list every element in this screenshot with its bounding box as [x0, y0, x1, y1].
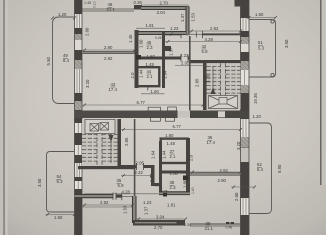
dim line 2.92 room43: [82, 49, 135, 51]
balcony51 top-right: [249, 20, 276, 78]
stair2 landing with cross: [85, 120, 115, 134]
right wall window (room39): [241, 198, 250, 215]
left wall at central junction: [75, 110, 83, 123]
svg-text:5.3: 5.3: [57, 179, 64, 184]
svg-text:1.60: 1.60: [183, 179, 188, 188]
svg-text:6.77: 6.77: [173, 124, 182, 129]
svg-text:3.04: 3.04: [157, 10, 166, 15]
stair2 bottom wall: [78, 166, 136, 169]
left wall window (balcony54 door): [75, 163, 83, 177]
svg-text:6.77: 6.77: [137, 100, 146, 105]
dim line 1.60 under room44: [141, 93, 165, 95]
svg-text:1.64: 1.64: [163, 70, 168, 79]
dimension ticks: [46, 16, 277, 221]
svg-text:1.40: 1.40: [191, 187, 195, 194]
top facade stub 0.36: [134, 5, 142, 10]
dim line 1.50 balcony51: [249, 17, 276, 19]
corridor stub wall: [165, 46, 171, 51]
dim line 4.28 kitchen35: [84, 193, 160, 195]
photo edge band left: [0, 0, 3, 235]
svg-text:1.45: 1.45: [128, 34, 133, 43]
dim line 6.77 hall1: [82, 104, 203, 106]
dim line 1.80 above room37: [163, 137, 189, 139]
svg-text:5.3: 5.3: [258, 46, 265, 51]
svg-text:1.50: 1.50: [255, 12, 264, 17]
dim line 6.77 hall2: [121, 129, 241, 131]
wall room45 top: [135, 32, 187, 35]
top facade window line room48: [82, 9, 134, 11]
room45 bottom wall + corridor wall: [135, 57, 182, 60]
tiny labels: [155, 36, 195, 194]
dim line 2.60 bottom right: [231, 186, 255, 188]
dim line 3.04 bottom: [136, 218, 185, 220]
facade step wall: [186, 7, 189, 36]
facade wall over kitchen42: [165, 31, 241, 39]
dim line 2.92 room36: [190, 171, 241, 173]
svg-text:1.81: 1.81: [167, 203, 176, 208]
svg-text:2.0: 2.0: [130, 72, 135, 79]
stair2 treads: [82, 132, 118, 167]
svg-text:1.23: 1.23: [143, 200, 152, 205]
svg-text:8.4: 8.4: [63, 58, 70, 63]
stair1 left wall: [203, 60, 207, 110]
svg-text:4.28: 4.28: [205, 37, 214, 42]
left wall pier: [75, 50, 83, 60]
svg-text:1.37: 1.37: [180, 13, 185, 22]
svg-text:3.50: 3.50: [284, 39, 289, 48]
svg-text:0.10: 0.10: [93, 1, 97, 8]
wall between room43 and room48: [82, 52, 139, 54]
svg-text:1.53: 1.53: [191, 13, 196, 22]
left exterior wall column: [75, 0, 83, 235]
bottom facade wall kitchen35: [75, 193, 123, 200]
svg-text:1.23: 1.23: [170, 26, 179, 31]
facade step wall bottom: [133, 196, 137, 223]
stair2 arrow: [109, 135, 114, 142]
svg-text:6.4: 6.4: [257, 167, 264, 172]
svg-text:2.85: 2.85: [195, 78, 200, 87]
svg-text:1.48: 1.48: [167, 141, 176, 146]
stair1 treads: [207, 63, 241, 96]
svg-text:1.50: 1.50: [147, 54, 156, 59]
svg-text:19.36: 19.36: [253, 93, 258, 104]
left wall window (room48 balcony door): [75, 14, 83, 28]
svg-text:1.50: 1.50: [170, 171, 179, 176]
svg-text:2.3: 2.3: [147, 45, 154, 50]
left wall stair window 2: [75, 145, 83, 155]
svg-text:2.22: 2.22: [180, 53, 189, 58]
svg-text:2.22: 2.22: [135, 170, 144, 175]
corridor vertical wall bottom: [151, 165, 155, 186]
svg-text:2.92: 2.92: [104, 56, 113, 61]
left wall pier: [75, 133, 83, 145]
right wall stair window: [241, 70, 250, 85]
balcony54 bottom-left: [47, 152, 75, 213]
door gap right: [218, 111, 225, 117]
svg-text:1.37: 1.37: [144, 206, 149, 215]
svg-text:2.85: 2.85: [124, 137, 129, 146]
svg-text:1.81: 1.81: [146, 23, 155, 28]
svg-text:3.04: 3.04: [156, 215, 165, 220]
stair2 floor wash: [82, 119, 118, 166]
dim line 1.50 balcony54: [46, 214, 75, 216]
left wall pier: [75, 177, 83, 181]
left wall pier: [75, 93, 83, 101]
right exterior wall column: [235, 0, 250, 235]
left wall pier: [75, 155, 83, 163]
stair1 arrow: [211, 87, 216, 94]
svg-text:21.1: 21.1: [205, 226, 214, 231]
svg-text:17.4: 17.4: [109, 87, 118, 92]
svg-text:0.34: 0.34: [184, 223, 191, 227]
bottom facade wall room39 left part: [133, 220, 185, 226]
svg-text:3.20: 3.20: [85, 79, 90, 88]
left wall pier: [75, 28, 83, 34]
svg-text:1.45: 1.45: [84, 1, 91, 5]
svg-text:2.1: 2.1: [147, 74, 154, 79]
svg-text:0.48: 0.48: [226, 226, 233, 230]
stair2 right wall: [118, 119, 122, 169]
svg-text:1.44: 1.44: [139, 69, 144, 78]
left wall outline: [74, 0, 76, 235]
left wall window (kitchen35): [75, 181, 83, 189]
wall room36/39 divider: [190, 173, 241, 175]
right wall at central junction: [241, 106, 250, 119]
vent square room38: [183, 176, 188, 181]
svg-text:1.48: 1.48: [146, 62, 155, 67]
svg-text:2.90: 2.90: [104, 45, 113, 50]
stair1 top wall: [191, 60, 241, 63]
svg-text:3.50: 3.50: [37, 178, 42, 187]
stair1 floor wash: [207, 63, 241, 109]
svg-text:1.60: 1.60: [151, 89, 160, 94]
dim line 2.22 corridor2: [121, 175, 151, 177]
dim line 2.92 kitchen42: [189, 30, 241, 32]
bottom facade stub 0.34: [177, 220, 185, 226]
wall vertical room43 right: [135, 30, 139, 88]
svg-text:17.4: 17.4: [207, 140, 216, 145]
svg-text:2.70: 2.70: [160, 1, 169, 6]
dim line 4.28 kitchen42: [165, 41, 241, 43]
wall corridor right (rooms37/38 left): [159, 141, 162, 195]
tiny dark dashes above 0.48: [226, 222, 229, 224]
svg-text:2.05: 2.05: [181, 61, 190, 66]
dim line 2.92 recess bottom: [82, 206, 133, 208]
wall kitchen35 thin vertical: [134, 119, 136, 196]
vent square room45: [136, 55, 141, 60]
left wall pier top dark: [75, 0, 83, 14]
room44 box: [137, 67, 160, 90]
corridor stub wall bottom: [155, 183, 160, 186]
left wall stair window 1: [75, 123, 83, 133]
svg-text:2.60: 2.60: [85, 27, 90, 36]
svg-text:1.64: 1.64: [151, 150, 156, 159]
wall corridor left (rooms45/44 right): [162, 32, 165, 89]
svg-text:0.26: 0.26: [155, 36, 162, 40]
svg-text:1.37: 1.37: [169, 47, 174, 56]
svg-text:2.1: 2.1: [170, 154, 177, 159]
svg-text:4.28: 4.28: [122, 190, 131, 195]
svg-text:1.80: 1.80: [165, 133, 174, 138]
corridor wall bottom: [120, 165, 137, 168]
balcony49 top-left: [53, 17, 75, 104]
svg-text:2.0: 2.0: [189, 154, 194, 161]
svg-text:5.9: 5.9: [118, 183, 125, 188]
door leaf rects top apartment: [148, 107, 160, 111]
svg-text:1.37: 1.37: [149, 173, 154, 182]
svg-text:0.36: 0.36: [134, 0, 143, 5]
svg-text:1.20: 1.20: [58, 12, 67, 17]
room38 top wall: [159, 171, 190, 174]
right wall window (balcony51 door): [241, 18, 250, 31]
svg-text:1.44: 1.44: [162, 150, 167, 159]
svg-text:21.1: 21.1: [107, 7, 116, 12]
room37 box: [161, 139, 188, 163]
dim line 1.81 room45: [136, 27, 165, 29]
dim line 2.05 corridor1: [175, 65, 206, 67]
bottom facade window line room39: [190, 224, 241, 226]
left wall window (room43): [75, 69, 83, 93]
left wall pier bottom: [75, 189, 83, 235]
svg-text:5.50: 5.50: [46, 57, 51, 66]
svg-text:2.92: 2.92: [220, 168, 229, 173]
stair1 landing with cross: [209, 96, 238, 109]
door leaf rects bottom apartment: [151, 118, 161, 122]
svg-text:2.60: 2.60: [234, 192, 239, 201]
right wall window (balcony52 door room36): [241, 119, 250, 137]
svg-text:5.9: 5.9: [202, 49, 209, 54]
svg-text:1.20: 1.20: [253, 114, 262, 119]
svg-text:2.92: 2.92: [210, 26, 219, 31]
svg-text:5.90: 5.90: [277, 164, 282, 173]
svg-text:51: 51: [258, 40, 263, 45]
svg-text:3.20: 3.20: [236, 141, 241, 150]
svg-text:1.50: 1.50: [54, 215, 63, 220]
svg-text:2.05: 2.05: [136, 160, 145, 165]
dim line 2.92 kitchen35: [82, 204, 133, 206]
vent square small2: [163, 193, 167, 197]
dim line 2.70 top: [141, 4, 189, 6]
svg-text:2.3: 2.3: [170, 185, 177, 190]
wall kitchen42 left thin: [189, 36, 191, 111]
svg-text:1.60: 1.60: [139, 39, 144, 48]
svg-text:2.90: 2.90: [218, 178, 227, 183]
svg-text:2.92: 2.92: [100, 200, 109, 205]
bottom facade opening line: [122, 193, 133, 201]
balcony52 bottom-right: [249, 123, 272, 214]
top facade wall: [141, 7, 189, 10]
svg-text:1.53: 1.53: [123, 205, 128, 214]
wall room36 left vertical: [186, 138, 190, 195]
central corridor wall: [75, 107, 250, 121]
photo edge line right: [320, 0, 322, 185]
svg-text:0.26: 0.26: [161, 190, 168, 194]
svg-text:2.70: 2.70: [154, 225, 163, 230]
room38 bottom wall: [159, 192, 190, 195]
svg-text:3.20: 3.20: [206, 74, 211, 83]
